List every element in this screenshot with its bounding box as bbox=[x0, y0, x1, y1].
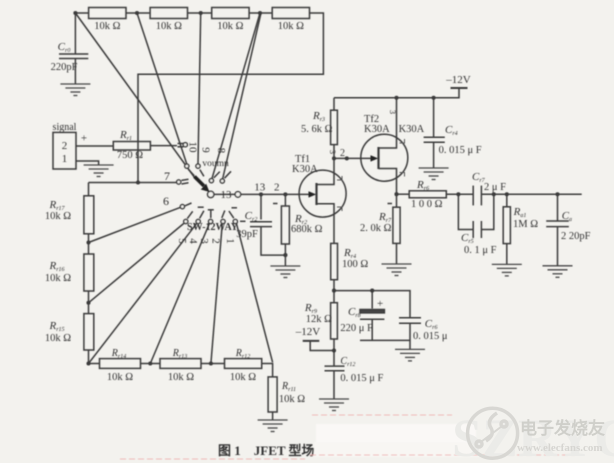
svg-text:Cr6: Cr6 bbox=[425, 318, 438, 331]
svg-text:1: 1 bbox=[62, 153, 68, 165]
svg-text:Rr14: Rr14 bbox=[111, 348, 126, 360]
svg-text:3: 3 bbox=[198, 238, 210, 244]
svg-text:220pF: 220pF bbox=[51, 62, 78, 73]
svg-text:10k Ω: 10k Ω bbox=[45, 333, 71, 344]
svg-text:1 0 0 Ω: 1 0 0 Ω bbox=[411, 199, 443, 210]
svg-text:13: 13 bbox=[221, 189, 233, 201]
svg-text:+: + bbox=[81, 133, 87, 145]
svg-text:K30A: K30A bbox=[399, 124, 425, 135]
svg-text:4: 4 bbox=[187, 238, 199, 244]
svg-text:Ca: Ca bbox=[562, 210, 572, 223]
svg-text:10k Ω: 10k Ω bbox=[94, 21, 120, 32]
svg-text:3: 3 bbox=[328, 150, 337, 154]
svg-text:750 Ω: 750 Ω bbox=[117, 150, 143, 161]
svg-text:2 μ F: 2 μ F bbox=[484, 182, 506, 193]
svg-text:7: 7 bbox=[164, 169, 170, 183]
svg-text:Rr3: Rr3 bbox=[312, 110, 325, 123]
svg-text:Cr12: Cr12 bbox=[340, 356, 355, 368]
svg-text:2 20pF: 2 20pF bbox=[561, 231, 591, 242]
svg-text:SW-12WAY: SW-12WAY bbox=[187, 222, 239, 233]
svg-text:2: 2 bbox=[274, 182, 280, 194]
svg-text:0. 015 μ F: 0. 015 μ F bbox=[439, 145, 482, 156]
svg-text:0. 015 μ F: 0. 015 μ F bbox=[340, 373, 383, 384]
svg-text:电子发烧友: 电子发烧友 bbox=[520, 418, 605, 438]
svg-text:2: 2 bbox=[62, 140, 68, 152]
svg-text:–12V: –12V bbox=[295, 326, 321, 338]
svg-text:2: 2 bbox=[209, 238, 221, 244]
svg-text:Cr8: Cr8 bbox=[348, 306, 361, 319]
svg-text:signal: signal bbox=[53, 122, 77, 133]
svg-text:0. 015 μ: 0. 015 μ bbox=[413, 331, 448, 342]
svg-text:10k Ω: 10k Ω bbox=[217, 21, 243, 32]
svg-text:Rr11: Rr11 bbox=[281, 381, 296, 393]
svg-text:Cr2: Cr2 bbox=[245, 210, 258, 223]
svg-text:10k Ω: 10k Ω bbox=[45, 273, 71, 284]
svg-text:Cr4: Cr4 bbox=[445, 124, 458, 137]
svg-text:10k Ω: 10k Ω bbox=[278, 21, 304, 32]
svg-text:6: 6 bbox=[163, 194, 169, 208]
svg-text:Rr15: Rr15 bbox=[48, 320, 64, 333]
svg-text:2: 2 bbox=[340, 148, 345, 159]
svg-text:3: 3 bbox=[388, 110, 397, 114]
svg-text:10k Ω: 10k Ω bbox=[45, 211, 71, 222]
svg-text:Rr1: Rr1 bbox=[119, 129, 132, 142]
svg-text:K30A: K30A bbox=[364, 124, 390, 135]
svg-text:39pF: 39pF bbox=[236, 229, 258, 240]
svg-text:Cr5: Cr5 bbox=[461, 232, 474, 245]
svg-text:0. 1 μ F: 0. 1 μ F bbox=[464, 245, 497, 256]
svg-text:Rr13: Rr13 bbox=[172, 348, 187, 360]
svg-text:Ra1: Ra1 bbox=[513, 206, 527, 219]
svg-text:9: 9 bbox=[200, 147, 212, 153]
svg-text:–12V: –12V bbox=[445, 74, 471, 86]
svg-text:5. 6k Ω: 5. 6k Ω bbox=[301, 124, 333, 135]
svg-text:220 μ F: 220 μ F bbox=[340, 323, 373, 334]
svg-text:10k Ω: 10k Ω bbox=[230, 372, 256, 383]
svg-text:12k Ω: 12k Ω bbox=[306, 314, 332, 325]
svg-text:Rr16: Rr16 bbox=[48, 260, 64, 273]
svg-text:+: + bbox=[377, 298, 383, 310]
svg-text:10k Ω: 10k Ω bbox=[156, 21, 182, 32]
svg-text:1M Ω: 1M Ω bbox=[513, 219, 538, 230]
svg-text:10: 10 bbox=[187, 142, 199, 154]
svg-text:100 Ω: 100 Ω bbox=[342, 259, 368, 270]
svg-text:13: 13 bbox=[254, 182, 266, 194]
svg-text:1: 1 bbox=[224, 238, 236, 244]
svg-text:图 1 JFET 型场效: 图 1 JFET 型场效 bbox=[218, 443, 329, 458]
svg-text:Cr0: Cr0 bbox=[58, 41, 71, 54]
svg-text:8: 8 bbox=[215, 148, 227, 154]
svg-text:Rr12: Rr12 bbox=[235, 348, 250, 360]
svg-text:2. 0k Ω: 2. 0k Ω bbox=[360, 223, 392, 234]
svg-text:5: 5 bbox=[176, 238, 188, 244]
svg-text:K30A: K30A bbox=[292, 164, 318, 175]
svg-text:Rr6: Rr6 bbox=[416, 179, 429, 192]
svg-text:10k Ω: 10k Ω bbox=[107, 372, 133, 383]
svg-text:www.elecfans.com: www.elecfans.com bbox=[517, 442, 603, 454]
svg-text:10k Ω: 10k Ω bbox=[168, 372, 194, 383]
svg-text:680k Ω: 680k Ω bbox=[291, 224, 323, 235]
svg-text:voumn: voumn bbox=[202, 159, 229, 169]
svg-text:10k Ω: 10k Ω bbox=[279, 394, 305, 405]
